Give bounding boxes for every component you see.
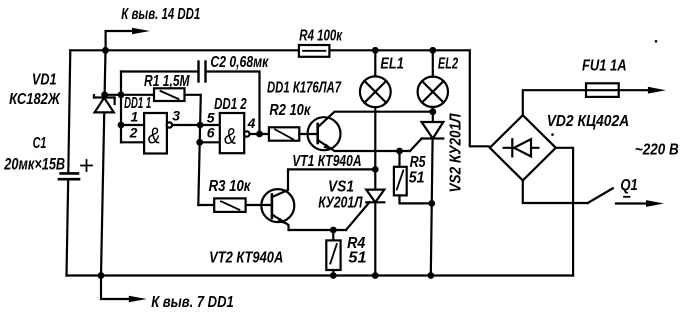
svg-text:R4 100к: R4 100к (299, 27, 342, 44)
svg-text:EL2: EL2 (438, 56, 458, 73)
wire pin 1 (121, 124, 144, 126)
wire pin3 to pin5 (173, 124, 220, 126)
wire arrow to pin 14 DD1 (106, 31, 134, 50)
transistor VT2 (261, 189, 294, 222)
wire VT1 collector to EL2 node (318, 112, 433, 128)
junction bottom rail VS2 (427, 272, 434, 279)
capacitor C1 (61, 172, 79, 175)
svg-text:C2 0,68мк: C2 0,68мк (210, 54, 269, 71)
lamp EL1 (374, 50, 376, 76)
junction bottom rail VS1 (372, 272, 379, 279)
svg-text:VS2 КУ201Л: VS2 КУ201Л (448, 113, 465, 193)
wire pin4 out (250, 133, 269, 135)
junction node A top (118, 91, 125, 98)
junction bottom rail R4 (330, 272, 337, 279)
switch Q1 lever (588, 188, 613, 203)
wire left vertical below C1 (67, 180, 69, 276)
wire bridge bottom to switch Q1 (523, 180, 588, 203)
wire left vertical (68, 50, 70, 172)
svg-text:R1 1,5М: R1 1,5М (144, 73, 190, 90)
svg-text:VD1: VD1 (32, 71, 57, 88)
junction VT1 emitter R5 (396, 148, 403, 155)
svg-text:&: & (148, 122, 160, 148)
junction node A pin 1 (118, 122, 125, 129)
capacitor C2 (197, 62, 199, 82)
transistor VT1 (308, 117, 341, 150)
wire R2 to VT1 base (299, 133, 317, 135)
thyristor VS1 (366, 190, 384, 203)
junction VT2 emitter R4 (330, 227, 337, 234)
fuse FU1 (586, 83, 619, 97)
svg-text:51: 51 (409, 170, 425, 187)
wire top rail (70, 49, 470, 51)
svg-text:VD2 КЦ402А: VD2 КЦ402А (547, 113, 630, 130)
resistor R2 (269, 127, 299, 140)
svg-text:5: 5 (207, 110, 215, 126)
junction VT2 collector EL1 branch (372, 166, 379, 173)
wire R1 right / node B vertical (185, 95, 201, 205)
wire VS2 gate (410, 139, 422, 152)
svg-text:Q1: Q1 (620, 177, 637, 194)
junction bottom rail VD1 branch (98, 272, 105, 279)
svg-text:~220 В: ~220 В (635, 141, 679, 158)
svg-text:6: 6 (207, 125, 215, 141)
svg-text:C1: C1 (33, 135, 47, 152)
svg-text:DD1 К176ЛА7: DD1 К176ЛА7 (267, 80, 342, 97)
junction top rail VD1 branch (102, 47, 109, 54)
wire bottom rail (67, 274, 574, 276)
svg-text:51: 51 (348, 250, 366, 267)
svg-text:VT1 КТ940А: VT1 КТ940А (292, 153, 361, 170)
ink speck (655, 40, 658, 43)
svg-text:1: 1 (131, 109, 139, 125)
wire C2 right down to pin4 node (206, 72, 260, 135)
wire VT2 collector (272, 169, 375, 197)
junction top rail EL1 (372, 47, 379, 54)
resistor R1 (154, 88, 185, 101)
wire VS1 gate (346, 202, 369, 230)
svg-text:R5: R5 (410, 154, 427, 171)
junction node B pin 6 (196, 139, 203, 146)
svg-text:КС182Ж: КС182Ж (9, 91, 61, 108)
svg-text:КУ201Л: КУ201Л (318, 194, 363, 211)
resistor R3 (198, 204, 214, 206)
junction R5 bottom VS2 cathode (428, 200, 435, 207)
svg-text:К выв. 14 DD1: К выв. 14 DD1 (121, 6, 200, 23)
svg-text:VS1: VS1 (328, 179, 354, 196)
junction VD1 branch R1 feed (101, 91, 108, 98)
wire Q1 arrow (616, 202, 648, 204)
junction top rail EL2 (429, 47, 436, 54)
zener VD1 (94, 96, 115, 98)
svg-text:20мк×15В: 20мк×15В (4, 154, 66, 173)
svg-text:R3 10к: R3 10к (209, 178, 252, 195)
ink speck (551, 133, 554, 136)
wire pin 2 (121, 141, 144, 143)
svg-text:К выв. 7 DD1: К выв. 7 DD1 (151, 294, 234, 311)
wire top rail right bend to bridge (470, 50, 489, 146)
wire VT1 emitter (318, 140, 410, 151)
junction pin 4 C2 node (256, 131, 263, 138)
wire main vertical VD1 branch (101, 50, 106, 275)
svg-text:4: 4 (247, 115, 256, 131)
svg-text:2: 2 (129, 125, 138, 141)
svg-text:DD1 2: DD1 2 (214, 96, 247, 113)
svg-text:R2 10к: R2 10к (269, 102, 311, 119)
svg-text:EL1: EL1 (380, 56, 403, 73)
wire C2 top left (121, 70, 199, 72)
thyristor VS2 (422, 122, 444, 139)
gate DD1.1 (144, 113, 167, 154)
svg-text:3: 3 (172, 108, 180, 124)
lamp EL2 (432, 50, 434, 76)
wire arrow to pin 7 DD1 (101, 276, 130, 300)
wire bridge top to fuse and arrow (523, 90, 649, 115)
svg-text:VT2 КТ940А: VT2 КТ940А (209, 250, 283, 267)
gate DD1.2 (220, 113, 244, 153)
wire pin 6 (200, 141, 220, 143)
bridge VD2 (490, 115, 556, 180)
svg-text:&: & (224, 123, 236, 149)
resistor R4 100k (299, 45, 330, 57)
resistor R5 (398, 151, 400, 167)
wire node A vertical (120, 72, 122, 143)
junction node B pin 5 (197, 122, 204, 129)
svg-text:FU1 1A: FU1 1A (582, 57, 627, 74)
wire bridge right down (556, 148, 573, 276)
wire VT2 emitter (289, 229, 346, 231)
junction VT1 collector EL2 branch (429, 108, 436, 115)
resistor R4 51 (332, 230, 334, 240)
wire R1 feed (105, 94, 154, 96)
